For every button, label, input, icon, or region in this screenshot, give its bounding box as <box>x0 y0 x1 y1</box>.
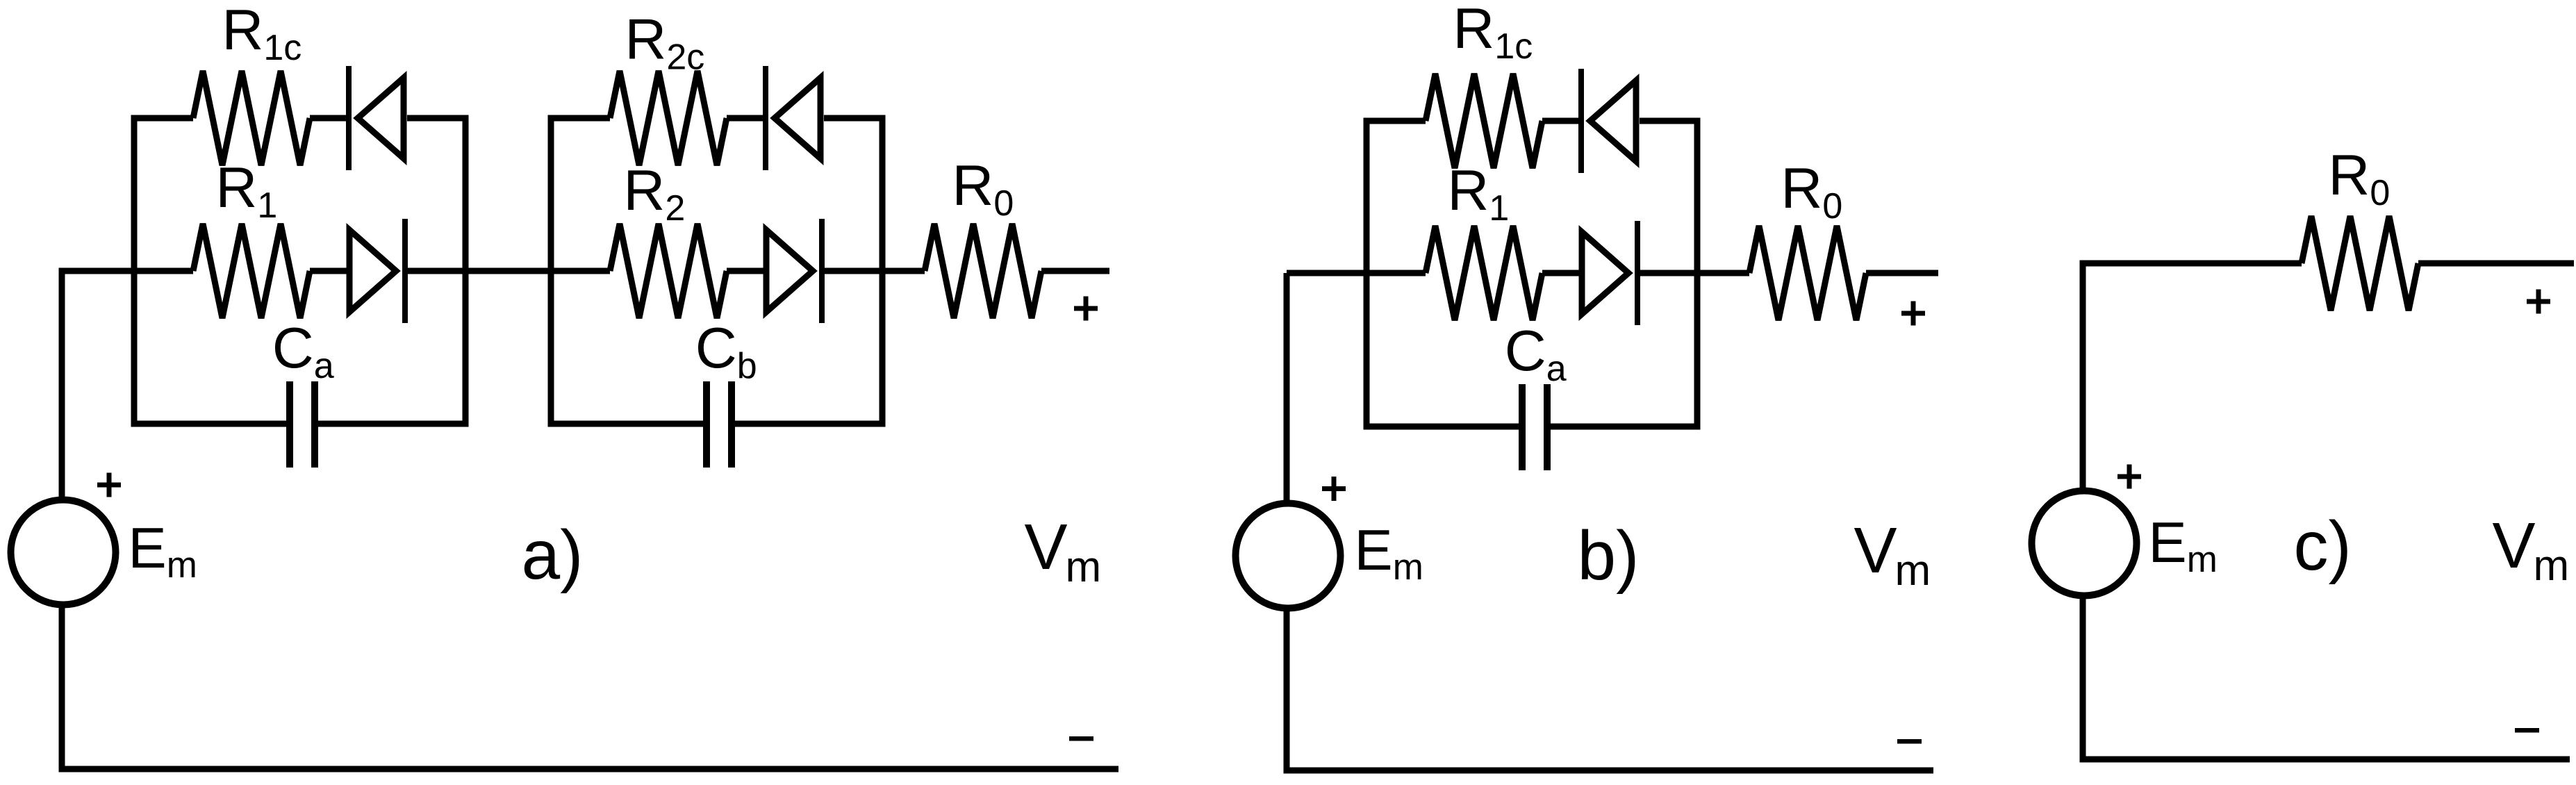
svg-text:a): a) <box>522 516 584 594</box>
svg-text:b): b) <box>1578 517 1640 595</box>
svg-text:c): c) <box>2294 507 2352 585</box>
